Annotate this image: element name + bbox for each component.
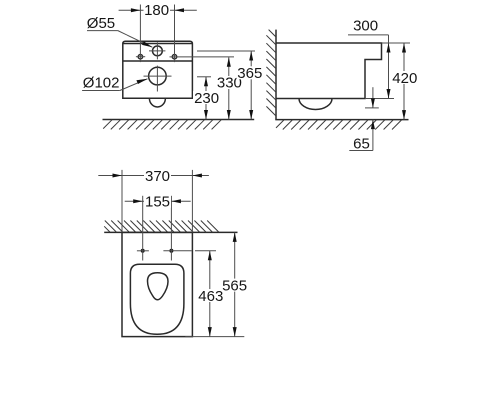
dim 65 upper arrow [365, 107, 379, 109]
svg-text:180: 180 [144, 2, 169, 19]
trap arc V2 [299, 99, 332, 110]
svg-text:370: 370 [145, 168, 170, 185]
ext line 330 (from right fixing hole) [170, 56, 235, 58]
svg-text:565: 565 [222, 278, 247, 295]
svg-text:155: 155 [145, 194, 170, 211]
dim 463 [209, 251, 211, 337]
dim 230 [205, 77, 207, 120]
inlet circle D55 [153, 46, 163, 56]
outlet circle D102 [149, 67, 167, 85]
dim 565 [234, 232, 236, 336]
dim 370 [98, 175, 122, 177]
wall line V2 [275, 30, 277, 120]
body outline V3 [122, 232, 192, 336]
ext line 230 [197, 76, 211, 78]
svg-text:65: 65 [353, 135, 370, 152]
water blob V3 [148, 273, 169, 300]
svg-text:300: 300 [353, 18, 378, 35]
ground hatch V2 [276, 120, 402, 130]
dim 330 [228, 57, 230, 119]
wall hatch V2 [266, 30, 276, 116]
dim 180 text [144, 3, 171, 16]
svg-text:365: 365 [237, 65, 262, 82]
dim 65 lower arrow + label [372, 120, 374, 151]
dim 155 [125, 200, 143, 202]
ext line bottom (shared 463/565) [185, 336, 244, 338]
trap arc V1 [149, 98, 165, 107]
dim 420 [403, 43, 405, 120]
svg-text:420: 420 [392, 70, 417, 87]
dim 155 extension lines [142, 196, 144, 261]
dim 365 [250, 51, 252, 120]
ext line 463 top [195, 250, 216, 252]
ground line V2 [275, 119, 408, 121]
seat fixing dot right [169, 249, 173, 253]
wall line V3 [104, 231, 237, 233]
ground line V1 [103, 119, 255, 121]
top extension to 420 [382, 42, 411, 44]
bottom ext line (for 300) [365, 98, 394, 100]
svg-text:230: 230 [194, 90, 219, 107]
divider line V1 [123, 60, 193, 62]
lid seam line V1 [123, 43, 192, 45]
dim 180 extension lines [139, 5, 141, 63]
fixing hole right [172, 55, 176, 59]
dim 180 line + arrows [119, 9, 141, 11]
ext line 365 [197, 50, 255, 52]
ground hatch V1 [103, 120, 221, 130]
svg-text:463: 463 [198, 288, 223, 305]
seat fixing dot left [141, 249, 145, 253]
dim 370 extension lines [121, 170, 123, 233]
D102 cross [144, 75, 172, 77]
D55 cross [149, 50, 165, 52]
svg-text:Ø102: Ø102 [83, 74, 120, 91]
svg-text:Ø55: Ø55 [87, 15, 115, 32]
bowl rim V3 [130, 264, 184, 334]
fixing hole left [138, 55, 142, 59]
body outline V1 [123, 41, 193, 98]
wall hatch V3 [104, 221, 219, 233]
body profile V2 [276, 43, 382, 99]
